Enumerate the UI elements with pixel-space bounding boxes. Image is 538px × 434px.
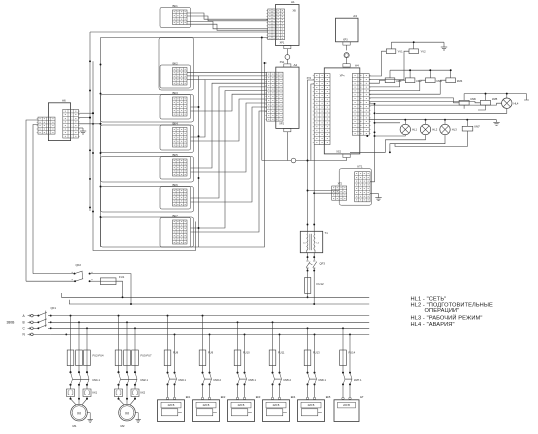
wire to HL4 xyxy=(369,103,501,105)
signal lamp HL2 xyxy=(420,120,437,135)
wire bus N xyxy=(51,333,370,335)
wire trunk right vertical xyxy=(369,103,375,182)
svg-text:FU1: FU1 xyxy=(119,275,125,279)
wire FU1 out xyxy=(116,281,123,298)
wire KM1 top stub xyxy=(389,70,391,78)
svg-text:ХТ2: ХТ2 xyxy=(338,183,343,186)
svg-text:220 В: 220 В xyxy=(203,403,210,407)
signal lamp HL4 xyxy=(502,98,519,108)
contactor coil KM2 xyxy=(405,78,422,83)
wire HL1 return xyxy=(366,135,405,137)
svg-text:YV2: YV2 xyxy=(421,50,427,54)
wire to KM6 xyxy=(369,98,459,103)
plug XS1 neck xyxy=(280,61,291,67)
wire left bus 1 xyxy=(89,32,91,211)
label 380V xyxy=(7,320,16,324)
svg-text:КМ6: КМ6 xyxy=(471,97,477,101)
svg-text:FU2-FU4: FU2-FU4 xyxy=(93,354,105,358)
plug XP1 neck xyxy=(284,46,291,55)
svg-text:ХР2: ХР2 xyxy=(279,123,284,126)
svg-text:ХS2: ХS2 xyxy=(336,151,341,154)
svg-text:FU11: FU11 xyxy=(278,351,285,355)
connector XP1 of A1 xyxy=(266,9,285,45)
device A3 xyxy=(336,14,359,42)
motor branch M1 (fuses FU2-FU4, contactor KM1.1, thermal KK1, motor M1) xyxy=(67,315,105,428)
device A2 xyxy=(276,63,299,128)
plug XS3 neck 2 xyxy=(343,64,350,67)
svg-text:ЕК3: ЕК3 xyxy=(256,395,261,399)
wire control line L2 xyxy=(69,300,369,304)
contactor coil KM7 xyxy=(462,120,480,131)
node transformer top junctions xyxy=(307,224,316,226)
terminal В xyxy=(23,321,34,325)
wire KM row common xyxy=(390,69,452,71)
ground YV row xyxy=(441,42,447,50)
svg-text:380В: 380В xyxy=(7,320,16,324)
contactor coil KM5 xyxy=(480,97,497,105)
node bus junctions xyxy=(89,60,101,218)
svg-text:220 В: 220 В xyxy=(273,403,280,407)
svg-text:HL3: HL3 xyxy=(452,128,457,132)
svg-text:М1: М1 xyxy=(72,424,76,428)
svg-text:FU10: FU10 xyxy=(243,351,250,355)
svg-text:FU13: FU13 xyxy=(313,351,320,355)
relay block ВК2 xyxy=(159,38,194,91)
connector X1 of module A6 xyxy=(37,117,55,134)
wire to KM4 xyxy=(369,80,446,94)
wire to KM5 xyxy=(369,102,480,103)
svg-text:Т1: Т1 xyxy=(325,231,329,235)
svg-text:HL4 - "АВАРИЯ": HL4 - "АВАРИЯ" xyxy=(411,322,455,328)
heater branch ЕК2 (fuse FU9, contact КМ3.2) xyxy=(193,315,226,422)
svg-text:ЕК5: ЕК5 xyxy=(326,395,331,399)
svg-text:КМ2: КМ2 xyxy=(416,79,422,83)
svg-text:ВК1: ВК1 xyxy=(173,4,179,8)
svg-text:FU9: FU9 xyxy=(208,351,214,355)
svg-text:220 В: 220 В xyxy=(238,403,245,407)
fuse FU1 xyxy=(90,275,125,285)
node trunk junctions xyxy=(198,62,266,229)
plug XP3 neck xyxy=(343,42,350,51)
wire HL4 return xyxy=(376,108,507,113)
relay block ВК5 xyxy=(101,153,194,182)
breaker QF2 xyxy=(72,263,93,282)
svg-text:КМ3: КМ3 xyxy=(437,79,443,83)
svg-text:ВК6: ВК6 xyxy=(173,183,179,187)
connector circle XS1 xyxy=(285,55,290,64)
wire left bus 3 xyxy=(100,38,102,248)
wire KT1 to link 2 xyxy=(313,192,339,194)
svg-text:УРч: УРч xyxy=(340,74,345,78)
wire A4 feeder 1 xyxy=(307,80,314,161)
plug XS2 neck of A4 xyxy=(336,151,350,158)
breaker QF1 xyxy=(33,306,56,329)
svg-text:М2: М2 xyxy=(120,424,124,428)
wire KM3 top stub xyxy=(429,70,431,78)
svg-text:HL3 - "РАБОЧИЙ РЕЖИМ": HL3 - "РАБОЧИЙ РЕЖИМ" xyxy=(411,313,483,321)
connector X2 of module A6 xyxy=(63,109,80,138)
svg-text:КК2: КК2 xyxy=(141,391,146,395)
wire to KM1 xyxy=(369,80,385,83)
wire A4 neck down xyxy=(346,158,348,161)
connector XT2 xyxy=(332,183,347,201)
wire control line L1 xyxy=(62,293,370,297)
wire A4 feeder 2 xyxy=(311,84,314,161)
plug XS2 neck of A2 xyxy=(284,128,291,131)
svg-text:ЕК1: ЕК1 xyxy=(186,395,191,399)
wire KM4 top stub xyxy=(450,70,452,78)
svg-text:КМ7: КМ7 xyxy=(475,125,481,129)
svg-text:В: В xyxy=(23,321,25,325)
wire left bus 2 xyxy=(93,61,196,250)
heater branch ЕК3 (fuse FU10, contact КМ5.1) xyxy=(228,321,261,421)
signal lamp HL1 xyxy=(400,120,417,135)
svg-text:YV1: YV1 xyxy=(398,50,404,54)
wire HL2 return xyxy=(350,135,426,153)
contactor coil KM1 xyxy=(385,78,402,83)
terminal А xyxy=(23,314,34,318)
terminal N xyxy=(23,333,34,337)
connector circle XS5 xyxy=(291,158,296,163)
svg-text:HL1: HL1 xyxy=(412,128,417,132)
wire B1 to A1 a xyxy=(187,13,268,19)
wire bus C xyxy=(51,327,370,329)
legend HL2 xyxy=(411,302,494,314)
svg-text:ХР1: ХР1 xyxy=(280,42,285,45)
breaker QF3 xyxy=(306,261,325,272)
wire middle link xyxy=(262,160,347,162)
svg-text:FU8: FU8 xyxy=(173,351,179,355)
svg-text:ХТ4: ХТ4 xyxy=(307,77,312,80)
svg-text:КМ4: КМ4 xyxy=(457,79,463,83)
svg-text:220 В: 220 В xyxy=(343,403,350,407)
svg-text:А6: А6 xyxy=(62,99,66,103)
svg-text:220 В: 220 В xyxy=(308,403,315,407)
wire trunk bundle A2 to relay blocks xyxy=(187,38,267,248)
wire HL3 return xyxy=(389,135,445,154)
wire neutral in xyxy=(33,333,67,335)
svg-text:А4: А4 xyxy=(355,63,359,67)
svg-text:HL4: HL4 xyxy=(514,101,519,105)
wire top trunk 2 xyxy=(101,37,268,39)
svg-text:ЕК4: ЕК4 xyxy=(291,395,296,399)
legend HL1 xyxy=(411,296,447,302)
heater branch ЕК5 (fuse FU13, contact КМ6.1) xyxy=(298,327,331,421)
connector circle XS3 xyxy=(344,53,349,64)
connector XT4 of A4 xyxy=(307,74,330,145)
relay block ВК6 xyxy=(101,183,194,212)
device A1 xyxy=(276,0,300,45)
svg-text:QF1: QF1 xyxy=(51,306,57,310)
svg-text:КМ5.1: КМ5.1 xyxy=(249,378,257,382)
wire QF3 right down xyxy=(313,271,315,305)
svg-text:ЕК2: ЕК2 xyxy=(221,395,226,399)
svg-text:КМ1: КМ1 xyxy=(396,79,402,83)
svg-text:КМ5.2: КМ5.2 xyxy=(284,378,292,382)
svg-text:А1: А1 xyxy=(291,0,295,4)
svg-text:QF3: QF3 xyxy=(320,262,326,266)
wire KT1 to link 1 xyxy=(307,190,340,192)
wire row C common xyxy=(464,93,529,101)
heater branch ЕТ (fuse FU14, contact КМ7.1) xyxy=(334,327,364,421)
legend HL3 xyxy=(411,313,483,321)
relay block ВК7 xyxy=(101,214,194,247)
wire to YV2 xyxy=(369,51,409,79)
svg-text:ХР3: ХР3 xyxy=(343,39,348,42)
wire bus B xyxy=(51,321,370,323)
relay block ВК4 xyxy=(101,121,194,152)
ground row D xyxy=(493,120,499,126)
wire module A6 left leads xyxy=(26,120,38,281)
wire transformer down xyxy=(307,253,316,261)
wire top trunk 1 xyxy=(90,31,268,33)
wire YV common xyxy=(391,41,444,49)
ground near module A6 xyxy=(78,128,86,134)
relay block ВК1 xyxy=(160,4,191,28)
svg-text:FU14: FU14 xyxy=(349,351,356,355)
heater branch ЕК1 (fuse FU8, contact КМ3.1) xyxy=(158,315,191,422)
wire module A6 to bus xyxy=(78,112,101,125)
contactor coil KM4 xyxy=(446,78,463,83)
wire lamp feed xyxy=(375,122,401,124)
svg-text:QF2: QF2 xyxy=(76,263,82,267)
svg-text:FU5-FU7: FU5-FU7 xyxy=(141,354,153,358)
connector XP2 of A2 xyxy=(265,72,284,125)
signal lamp HL3 xyxy=(440,120,457,135)
wire B1 to A1 d xyxy=(187,24,268,30)
svg-text:ХS1: ХS1 xyxy=(280,61,285,64)
svg-text:ВК3: ВК3 xyxy=(173,91,179,95)
electromagnet YV2 xyxy=(409,49,426,54)
svg-text:220 В: 220 В xyxy=(168,403,175,407)
wire A2 down xyxy=(286,132,288,161)
wire B1 to A1 b xyxy=(187,16,268,21)
module A6 xyxy=(48,99,70,141)
svg-text:А3: А3 xyxy=(353,14,357,18)
relay block ВК3 xyxy=(101,91,194,122)
svg-text:КМ2.1: КМ2.1 xyxy=(141,378,149,382)
wire QF2 upper out xyxy=(90,274,132,305)
connector XS4 of A4 xyxy=(352,74,370,136)
svg-text:КМ3.1: КМ3.1 xyxy=(179,378,187,382)
electromagnet YV1 xyxy=(386,49,403,54)
wire row D common xyxy=(369,119,496,121)
svg-text:ВК2: ВК2 xyxy=(173,61,179,65)
svg-text:М: М xyxy=(77,410,80,415)
svg-text:КМ1.1: КМ1.1 xyxy=(93,378,101,382)
svg-text:КМ3.2: КМ3.2 xyxy=(214,378,222,382)
wire B1 to A1 c xyxy=(187,22,268,29)
transformer TV1 xyxy=(300,231,328,253)
motor branch M2 (fuses FU5-FU7, contactor KM2.1, thermal KK2, motor M2) xyxy=(115,315,153,428)
device A4 xyxy=(324,63,360,153)
wire KM7 return xyxy=(395,131,467,147)
svg-text:КТ1: КТ1 xyxy=(358,164,363,168)
heater branch ЕК4 (fuse FU11, contact КМ5.2) xyxy=(263,321,296,421)
terminal С xyxy=(23,327,34,331)
svg-text:ВК5: ВК5 xyxy=(173,153,179,157)
svg-text:FU12: FU12 xyxy=(317,282,324,286)
svg-text:ВК4: ВК4 xyxy=(173,121,179,125)
svg-text:КК1: КК1 xyxy=(93,391,98,395)
fuse FU12 xyxy=(305,271,324,299)
svg-text:КМ6.1: КМ6.1 xyxy=(319,378,327,382)
wire to KM3 xyxy=(369,80,425,90)
legend HL4 xyxy=(411,322,455,328)
svg-text:ХВ: ХВ xyxy=(293,10,297,13)
relay block KT1 xyxy=(339,164,371,205)
contactor coil KM6 xyxy=(459,97,476,105)
wire to YV1 xyxy=(369,51,386,76)
svg-text:HL2: HL2 xyxy=(432,128,437,132)
svg-text:КМ5: КМ5 xyxy=(492,97,498,101)
wire bus A xyxy=(51,315,370,317)
contactor coil KM3 xyxy=(426,78,443,83)
svg-text:ВК7: ВК7 xyxy=(173,214,179,218)
wire KM2 top stub xyxy=(409,70,411,78)
wire link down to transformer xyxy=(307,160,309,232)
wire A4 to transformer right xyxy=(313,145,315,232)
wire rowC returns xyxy=(464,105,485,110)
wire feed to QF2 xyxy=(26,274,75,282)
svg-text:КМ7.1: КМ7.1 xyxy=(354,378,362,382)
svg-text:М: М xyxy=(125,410,128,415)
svg-text:ОПЕРАЦИИ": ОПЕРАЦИИ" xyxy=(425,308,460,314)
wire to KM2 xyxy=(369,80,405,87)
svg-text:ЕТ: ЕТ xyxy=(360,395,364,399)
node junction near A1 xyxy=(261,37,263,39)
ground near KT1 xyxy=(370,194,382,201)
svg-text:А2: А2 xyxy=(294,63,298,67)
